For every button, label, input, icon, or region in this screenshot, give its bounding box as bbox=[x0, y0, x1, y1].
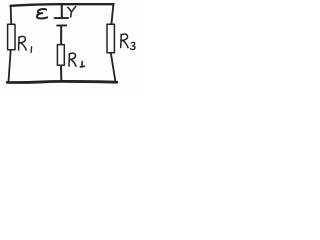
wire middle lower bbox=[60, 65, 62, 80]
resistor R1 bbox=[8, 24, 15, 50]
label r (internal resistance) bbox=[68, 7, 76, 17]
wire middle (battery to R2) bbox=[60, 26, 62, 45]
battery short plate bbox=[57, 24, 66, 26]
wire bottom bbox=[7, 81, 116, 82]
wire right upper bbox=[111, 4, 113, 24]
resistor R3 bbox=[107, 24, 114, 53]
resistor R2 bbox=[57, 45, 64, 66]
wire right lower bbox=[111, 53, 116, 82]
label R3 bbox=[121, 34, 135, 50]
label R2 bbox=[69, 53, 84, 67]
wire left upper bbox=[10, 6, 13, 25]
battery long plate bbox=[55, 17, 69, 19]
wire left lower bbox=[9, 50, 11, 82]
wire top bbox=[11, 4, 114, 6]
label epsilon (emf) bbox=[37, 9, 47, 18]
wire battery top lead bbox=[61, 5, 63, 18]
label R1 bbox=[19, 36, 32, 52]
